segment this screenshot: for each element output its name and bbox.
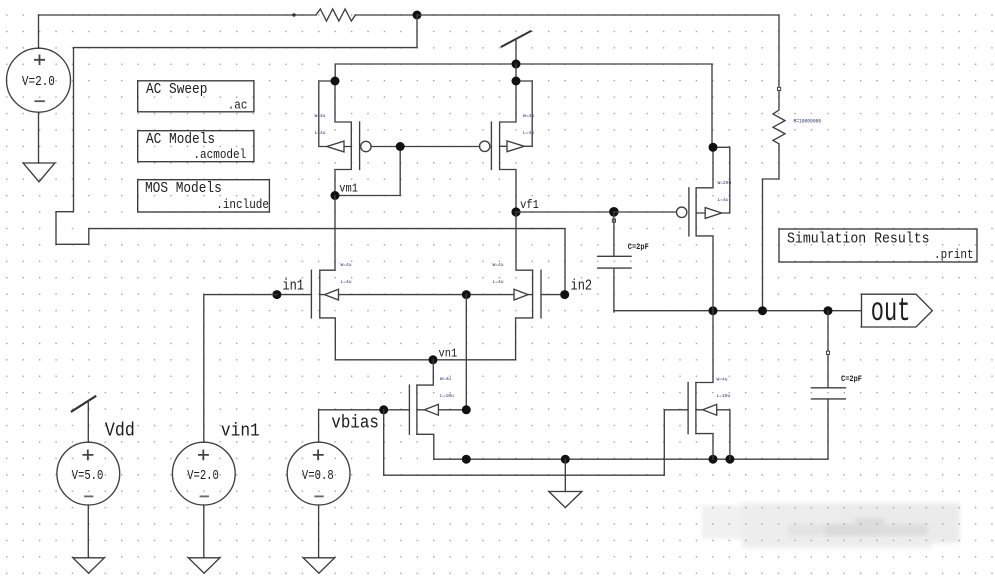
voltage source vbias V=0.8: [287, 442, 350, 505]
svg-text:vin1: vin1: [221, 421, 260, 442]
node vn1: [429, 355, 438, 364]
wire R1 to node X: [355, 14, 417, 16]
svg-text:C=2pF: C=2pF: [841, 376, 862, 385]
wire vdd rail: [335, 64, 712, 147]
wire vbias to M6 gate: [384, 410, 688, 475]
svg-text:W=4u: W=4u: [440, 376, 451, 382]
junction ground tap: [561, 455, 570, 464]
wire vbias to M5 gate: [319, 409, 410, 411]
wire vbias source up: [318, 410, 320, 442]
junction gate link: [396, 142, 405, 151]
svg-text:MOS Models: MOS Models: [145, 180, 222, 197]
svg-text:L=4u: L=4u: [315, 130, 326, 136]
node in1: [272, 290, 281, 299]
wire vf1 to C1: [516, 211, 614, 213]
junction vbias: [379, 405, 388, 414]
capacitor C1 C=2pF: [598, 212, 631, 312]
svg-text:W=4u: W=4u: [315, 113, 326, 119]
node vf1: [511, 207, 520, 216]
out pin: [862, 294, 933, 330]
svg-text:.print: .print: [934, 247, 974, 262]
svg-text:vf1: vf1: [520, 199, 539, 212]
wire rail to M2 source: [515, 64, 517, 81]
junction out R2: [758, 306, 767, 315]
svg-text:C=2pF: C=2pF: [628, 244, 649, 253]
ground for vbias: [303, 505, 334, 573]
svg-text:Simulation Results: Simulation Results: [787, 231, 930, 248]
svg-text:L=4u: L=4u: [523, 130, 534, 136]
nmos M5 tail current source: [409, 360, 466, 459]
ground for vin1: [188, 505, 219, 573]
junction bulk rail: [462, 455, 471, 464]
svg-text:L=10u: L=10u: [440, 393, 454, 399]
svg-text:out: out: [871, 294, 911, 330]
text box AC Sweep .ac: [138, 81, 254, 113]
pin square on R2 wire: [778, 87, 781, 90]
capacitor C2 C=2pF: [811, 311, 845, 399]
wire vf1 to M7 gate: [614, 211, 677, 213]
power symbol VDD top: [501, 31, 532, 64]
svg-text:V=2.0: V=2.0: [187, 468, 219, 484]
pmos M7 output driver: [677, 147, 730, 310]
svg-text:L=4u: L=4u: [341, 279, 352, 285]
resistor R1: [316, 9, 355, 21]
svg-text:vbias: vbias: [331, 414, 378, 434]
junction bulk tap: [462, 290, 471, 299]
wire R2 bottom to out node: [763, 150, 780, 311]
wire top rail left: [39, 14, 317, 16]
voltage source Vdd V=5.0: [57, 442, 120, 505]
voltage source V2 AC input V=2.0: [7, 48, 71, 112]
junction M1 source: [331, 77, 340, 86]
pmos M1 mirror diode-connected: [319, 81, 371, 196]
svg-text:V=5.0: V=5.0: [72, 468, 104, 484]
svg-text:L=4u: L=4u: [718, 197, 729, 203]
wire in1 to vin1: [204, 295, 277, 443]
svg-text:in2: in2: [571, 278, 593, 294]
junction out C2: [824, 306, 833, 315]
power symbol Vdd: [71, 396, 96, 442]
svg-text:L=4u: L=4u: [493, 279, 504, 285]
node in2: [560, 290, 569, 299]
ground for V2: [23, 112, 55, 182]
text box AC Models .acmodel: [138, 131, 254, 162]
svg-text:V=2.0: V=2.0: [22, 74, 55, 89]
ground symbol mid: [549, 459, 582, 507]
junction M7 source: [709, 143, 718, 152]
svg-text:W=4u: W=4u: [341, 262, 352, 268]
wire out line: [614, 310, 862, 312]
svg-text:vn1: vn1: [439, 348, 458, 361]
svg-text:in1: in1: [282, 278, 304, 294]
pmos M2 mirror: [480, 81, 533, 212]
svg-text:.ac: .ac: [228, 98, 248, 113]
junction M2 source: [512, 77, 521, 86]
text box MOS Models .include: [138, 180, 270, 213]
svg-text:R=10000000: R=10000000: [794, 118, 822, 125]
svg-text:Vdd: Vdd: [105, 421, 135, 442]
nmos M3 input in1: [277, 270, 466, 360]
ground for Vdd: [73, 505, 104, 573]
node vm1: [331, 191, 340, 200]
svg-text:AC Sweep: AC Sweep: [146, 83, 207, 99]
pin dot: [292, 13, 295, 16]
junction tail bulk: [462, 405, 471, 414]
nmos M6 output: [688, 311, 730, 460]
svg-text:W=4u: W=4u: [523, 113, 534, 119]
wire node X to in2 feedback network: [56, 15, 565, 295]
wire node X to R2: [417, 15, 779, 87]
svg-text:vm1: vm1: [339, 183, 358, 196]
svg-text:W=4u: W=4u: [493, 262, 504, 268]
svg-text:W=20u: W=20u: [718, 180, 732, 186]
resistor R2: [773, 91, 785, 151]
wire V2 plus terminal up: [38, 15, 40, 48]
text box Simulation Results .print: [779, 229, 977, 262]
watermark blur: [702, 503, 960, 548]
svg-text:AC Models: AC Models: [146, 131, 215, 148]
junction node X: [413, 11, 422, 20]
wire gate M1 to M2: [371, 146, 479, 148]
svg-text:W=4u: W=4u: [717, 377, 728, 383]
svg-text:.include: .include: [216, 198, 269, 213]
wire ground rail: [434, 399, 828, 459]
svg-text:V=0.8: V=0.8: [302, 468, 334, 484]
svg-text:L=10u: L=10u: [717, 393, 731, 399]
wire tail node: [335, 359, 515, 361]
junction rail power: [512, 60, 521, 69]
junction out M6M7: [709, 306, 718, 315]
wire bulk down: [465, 295, 467, 410]
junction M6 source: [709, 455, 718, 464]
wire mirror gate link: [335, 147, 400, 196]
junction vf1 C1: [609, 207, 619, 217]
nmos M4 input in2: [466, 212, 564, 360]
junction M6 bulk: [725, 455, 734, 464]
wire vm1 to M3 drain: [334, 196, 336, 271]
voltage source vin1 V=2.0: [172, 442, 235, 505]
svg-text:.acmodel: .acmodel: [193, 147, 246, 162]
